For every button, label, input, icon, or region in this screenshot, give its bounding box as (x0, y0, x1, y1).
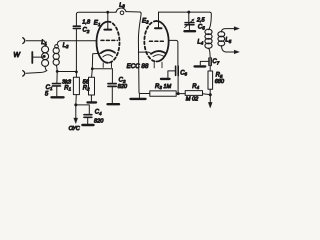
tube E2 grid (150, 40, 166, 42)
tube E2 heater stubs (154, 62, 162, 68)
wire L3 down to R3 (138, 12, 149, 94)
tube E2 heater (153, 55, 164, 57)
resistor R2 (89, 69, 95, 102)
label E2 (142, 17, 149, 24)
svg-text:C7: C7 (212, 59, 219, 65)
tube E1 heater stubs (103, 63, 111, 68)
tube E2 anode (155, 12, 162, 28)
wire input bottom to L1 (26, 71, 47, 74)
wire anode2 rail (159, 12, 212, 30)
input terminal bottom (23, 71, 25, 77)
node AGC (74, 103, 77, 106)
capacitor C2 (73, 26, 80, 28)
wire cathode1 to C3 (92, 68, 112, 70)
node grid2 line bottom (177, 92, 180, 95)
wire C6 down to node (177, 76, 179, 94)
ground C4 (82, 124, 93, 126)
svg-text:L3: L3 (119, 2, 125, 8)
tube E2 envelope solid right (157, 21, 169, 62)
wire input top to L1 (26, 40, 44, 42)
capacitor C4 (84, 115, 92, 124)
node C5 (187, 11, 190, 14)
svg-text:820: 820 (118, 84, 128, 90)
wire L2 bottom down to C1 (56, 72, 58, 83)
svg-text:680: 680 (215, 79, 225, 85)
arrow AGC down (74, 105, 78, 124)
label OYC (69, 126, 80, 132)
label R4 (192, 84, 199, 90)
tube E2 cathode (151, 51, 166, 54)
label C6 (180, 70, 187, 76)
node R5 bottom (209, 93, 212, 96)
svg-text:C2: C2 (83, 28, 90, 34)
capacitor C5 trimmer (185, 12, 195, 30)
tube E1 cathode (101, 50, 115, 53)
inductor L1 (42, 41, 49, 71)
node anode rail (106, 11, 109, 14)
svg-text:C5: C5 (198, 24, 205, 30)
tube E1 envelope dashed right (108, 22, 119, 63)
svg-text:5: 5 (45, 92, 49, 98)
svg-text:R4: R4 (192, 84, 199, 90)
tube E1 anode (104, 12, 111, 29)
label ECC 88 (127, 63, 149, 70)
ground C6 (161, 78, 170, 80)
label L5 (225, 38, 231, 44)
svg-text:ОУС: ОУС (69, 126, 80, 132)
ground C1 (52, 96, 64, 98)
ground R2 (88, 101, 97, 103)
label L2 (63, 43, 69, 49)
tube E1 cathode lead (92, 53, 101, 68)
antenna coupling plate (31, 52, 33, 63)
ground C7 (195, 65, 206, 67)
wire antenna plate to L1 tap (33, 56, 43, 58)
resistor R4 (185, 91, 202, 96)
arrow AGC out down (208, 95, 212, 108)
svg-text:L1: L1 (41, 40, 47, 46)
label L1 (41, 40, 47, 46)
inductor L5 (218, 32, 225, 46)
svg-text:L5: L5 (225, 38, 231, 44)
node L1 tap (43, 55, 46, 58)
label R2 value 56 (83, 79, 91, 91)
svg-text:E2: E2 (142, 17, 149, 24)
wire R1 bottom to AGC node (75, 95, 78, 105)
resistor R3 (150, 91, 176, 96)
svg-text:2,5: 2,5 (196, 18, 206, 24)
label C7 (212, 59, 219, 65)
capacitor C1 (53, 84, 61, 97)
svg-text:ECC 88: ECC 88 (127, 63, 149, 70)
node L2 bottom (56, 70, 59, 73)
svg-text:820: 820 (94, 118, 104, 124)
node R2 top (91, 67, 94, 70)
tube E2 envelope dashed left (144, 21, 156, 62)
svg-text:W: W (13, 52, 21, 59)
svg-text:R3 1M: R3 1M (155, 84, 171, 90)
label L3 (119, 2, 125, 8)
inductor L2 (53, 45, 59, 72)
wire grid line L2 top to tube1 grid (57, 41, 96, 45)
label L4 (197, 39, 203, 45)
resistor R5 (208, 71, 213, 94)
label C2 value 1,8 (82, 19, 91, 33)
label C1 value 5 (45, 85, 53, 98)
svg-text:R2: R2 (83, 85, 90, 91)
ground C3 (108, 103, 119, 105)
label R5 value 680 (215, 73, 225, 85)
tube E1 envelope solid left (97, 22, 108, 63)
wire L2 bottom to R1 lead (57, 71, 76, 73)
tube E1 heater (103, 55, 113, 57)
capacitor C7 (200, 58, 211, 71)
label C3 value 820 (118, 78, 128, 90)
tube E1 grid (101, 39, 117, 41)
svg-text:C6: C6 (180, 70, 187, 76)
wire C2 up to anode rail (76, 12, 107, 26)
resistor R1 (73, 77, 79, 94)
label C4 value 820 (94, 110, 104, 125)
label R1 value 3k3 (62, 80, 72, 92)
svg-text:L4: L4 (197, 39, 203, 45)
input terminal top (23, 38, 25, 44)
svg-text:L2: L2 (63, 43, 69, 49)
antenna label W (13, 52, 21, 59)
label E1 (94, 20, 101, 27)
inductor L3 (108, 8, 140, 15)
svg-text:R1: R1 (64, 86, 71, 92)
wire AGC node to C4 (76, 105, 90, 114)
ground R3 (131, 94, 146, 99)
label C5 value 2,5 (196, 18, 206, 31)
output arrow top (221, 27, 239, 32)
label R4 value M02 (186, 96, 199, 102)
svg-text:C4: C4 (95, 110, 102, 116)
wire to cathode2 (138, 52, 151, 54)
wire grid2 to C6 (169, 40, 178, 65)
capacitor C6 (168, 66, 178, 78)
svg-text:1,8: 1,8 (82, 19, 91, 25)
wire R3 to R4 (176, 93, 185, 95)
label R3 value 1M (155, 84, 171, 90)
inductor L4 (205, 29, 212, 58)
capacitor C3 (108, 69, 116, 104)
wire C2 down through grid line to R1 (75, 29, 77, 77)
svg-text:E1: E1 (94, 20, 101, 27)
ground C5 (185, 30, 196, 32)
svg-text:C1: C1 (46, 85, 53, 91)
wire R4 to R5 node (203, 93, 211, 96)
svg-text:M 02: M 02 (186, 96, 199, 102)
output arrow bottom (222, 46, 240, 54)
node R1 top tee (75, 71, 78, 74)
